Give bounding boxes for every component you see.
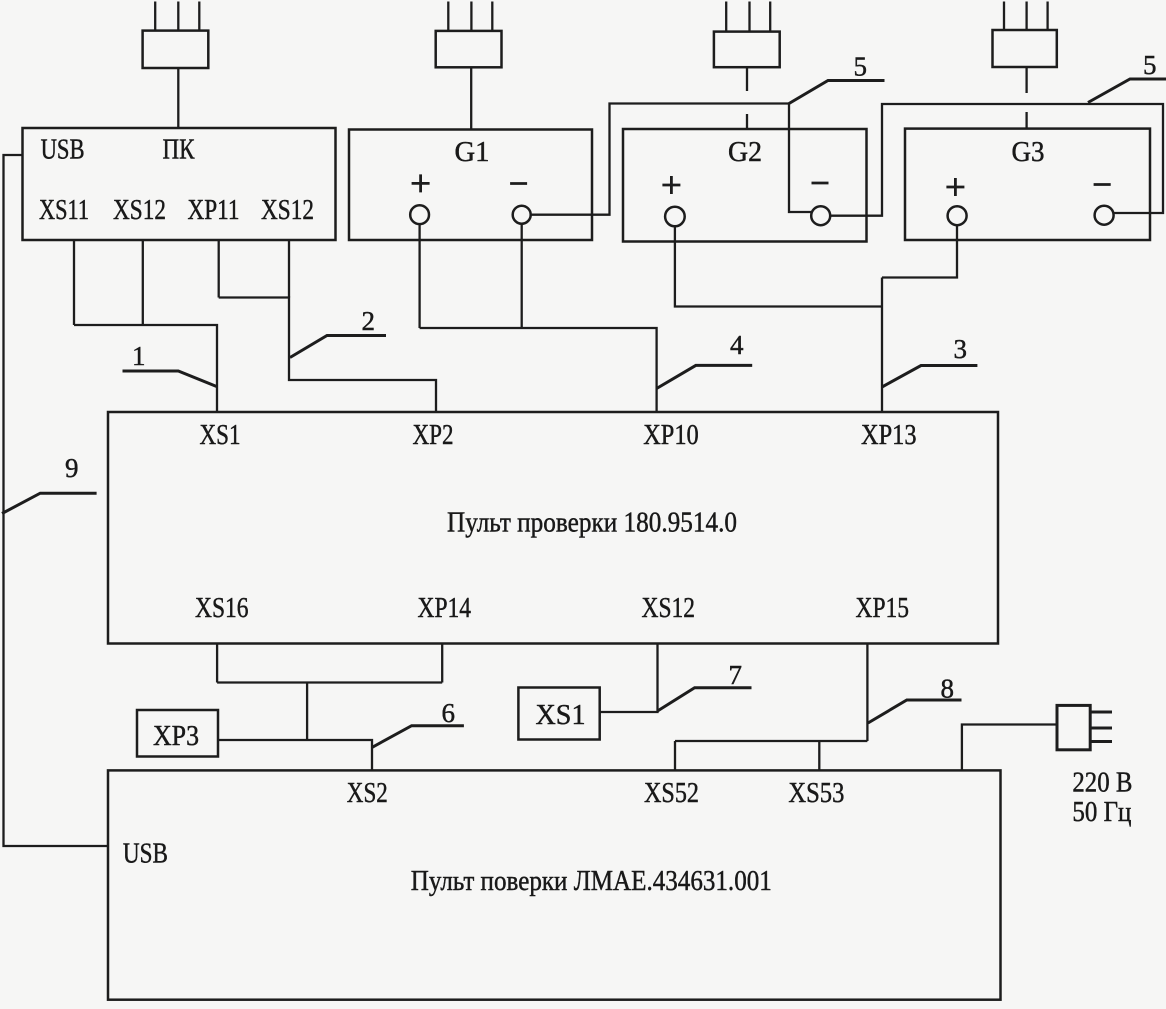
svg-text:XS1: XS1 (200, 420, 241, 451)
wire 5: G1 minus to G2 minus (531, 104, 812, 215)
svg-text:XS1: XS1 (536, 700, 586, 731)
svg-text:XS2: XS2 (347, 778, 388, 809)
ПК box (23, 128, 336, 240)
minus sign G3 (1094, 183, 1111, 186)
G3 box (905, 129, 1150, 240)
terminal circle G2 - (811, 206, 830, 225)
terminal circle G1 - (513, 206, 531, 224)
wire: USB ПК to bottom box (cable 9) (4, 155, 109, 846)
wire: XS16 drop (216, 644, 218, 683)
wire: XP3 to XS2 (218, 740, 372, 770)
wire: XS16/XP14 bus (217, 681, 442, 683)
svg-text:XS53: XS53 (788, 778, 844, 809)
wire: plug to G1 box (470, 67, 472, 129)
svg-text:6: 6 (442, 698, 456, 728)
svg-text:5: 5 (1143, 50, 1157, 80)
plus sign G1 (412, 174, 430, 192)
mains plug symbol above ПК (143, 2, 209, 69)
svg-text:2: 2 (362, 306, 376, 336)
svg-text:XS11: XS11 (39, 195, 89, 226)
terminal circle G3 - (1095, 206, 1114, 225)
wire 5: G2 minus to G3 minus (830, 104, 1163, 216)
svg-text:XP14: XP14 (418, 593, 472, 624)
svg-text:220 В: 220 В (1072, 768, 1132, 799)
XP3 connector box (137, 710, 218, 757)
svg-text:50 Гц: 50 Гц (1072, 797, 1131, 828)
svg-text:XP2: XP2 (413, 420, 454, 451)
wire: plug to G3 box (broken by wire 5 crossing) (1025, 67, 1027, 129)
wire: plug to G2 box (broken by wire 5 crossing) (746, 67, 748, 129)
svg-text:XS12: XS12 (113, 195, 166, 226)
svg-text:USB: USB (123, 839, 168, 870)
wire: XS53 drop (818, 741, 820, 770)
wire: XP15 drop (866, 644, 868, 742)
terminal circle G3 + (948, 206, 967, 225)
plus sign G3 (946, 178, 964, 196)
220V mains plug symbol (1057, 705, 1112, 749)
svg-text:4: 4 (730, 330, 744, 360)
svg-text:9: 9 (65, 453, 79, 483)
svg-text:XP3: XP3 (153, 721, 199, 752)
mains plug symbol above G3 (993, 2, 1057, 68)
minus sign G1 (510, 182, 527, 185)
svg-text:G1: G1 (455, 137, 490, 168)
svg-text:5: 5 (854, 52, 868, 82)
leader 1 (123, 371, 217, 387)
leader 5 (first) (789, 81, 885, 104)
wire: G1 plus drop (418, 224, 420, 328)
svg-text:USB: USB (41, 135, 85, 166)
svg-text:XP15: XP15 (856, 593, 910, 624)
Пульт поверки box (108, 770, 1001, 999)
wire: G1 bus to XP10 (420, 328, 657, 412)
wire: G2 plus drop to XP13 (675, 226, 882, 306)
wire: XP11/XS12 join down to XP2 (219, 298, 436, 413)
Пульт проверки box (108, 412, 998, 644)
leader 3 (882, 366, 977, 388)
wire: XS11/XS12 bus to XS1 (74, 325, 217, 412)
svg-text:XP10: XP10 (643, 420, 699, 451)
G2 box (623, 129, 867, 242)
leader 8 (868, 700, 962, 723)
wire: XS52/XS53 bus (675, 740, 867, 742)
terminal circle G2 + (665, 207, 685, 227)
minus sign G2 (812, 182, 829, 185)
wire: XS12 (second) drop (288, 240, 290, 298)
wire: 220V feed (962, 725, 1057, 771)
wire: XS12 drop to XS1 connector (600, 644, 658, 713)
mains plug symbol above G2 (714, 2, 780, 68)
wire: bus down to XP3 line (306, 683, 308, 741)
svg-text:G2: G2 (728, 137, 762, 168)
G1 box (349, 130, 592, 241)
svg-text:XP13: XP13 (861, 420, 917, 451)
svg-text:Пульт проверки 180.9514.0: Пульт проверки 180.9514.0 (447, 508, 737, 539)
svg-text:ПК: ПК (163, 135, 195, 166)
wire: XP11 drop (218, 240, 220, 298)
svg-text:XS12: XS12 (261, 195, 314, 226)
svg-text:7: 7 (729, 660, 743, 690)
svg-text:XS52: XS52 (644, 778, 699, 809)
svg-text:1: 1 (132, 341, 146, 371)
leader 7 (658, 688, 752, 711)
wire: XS12 drop (142, 240, 144, 325)
wire: XS52 drop (674, 741, 676, 770)
terminal circle G1 + (410, 205, 429, 224)
svg-text:G3: G3 (1012, 137, 1045, 168)
XS1 connector box (518, 688, 599, 740)
wire: XP14 drop (441, 644, 443, 683)
svg-text:XS16: XS16 (195, 593, 249, 624)
wire: plug to ПК box (177, 68, 179, 128)
leader 9 (2, 493, 97, 513)
wire: XP13 drop (881, 278, 883, 413)
wire: G3 plus drop (882, 225, 957, 277)
svg-text:XS12: XS12 (642, 593, 696, 624)
leader 5 (second) (1088, 79, 1166, 103)
svg-text:XP11: XP11 (188, 195, 240, 226)
svg-text:8: 8 (941, 674, 955, 704)
wire: G1 minus drop (521, 224, 523, 328)
plus sign G2 (662, 176, 680, 194)
svg-text:Пульт поверки ЛМАЕ.434631.001: Пульт поверки ЛМАЕ.434631.001 (411, 866, 772, 897)
svg-text:3: 3 (954, 334, 968, 364)
leader 4 (657, 365, 753, 388)
mains plug symbol above G1 (436, 2, 502, 68)
wire: XS11 drop (73, 240, 75, 325)
leader 6 (372, 726, 464, 748)
leader 2 (290, 336, 386, 358)
